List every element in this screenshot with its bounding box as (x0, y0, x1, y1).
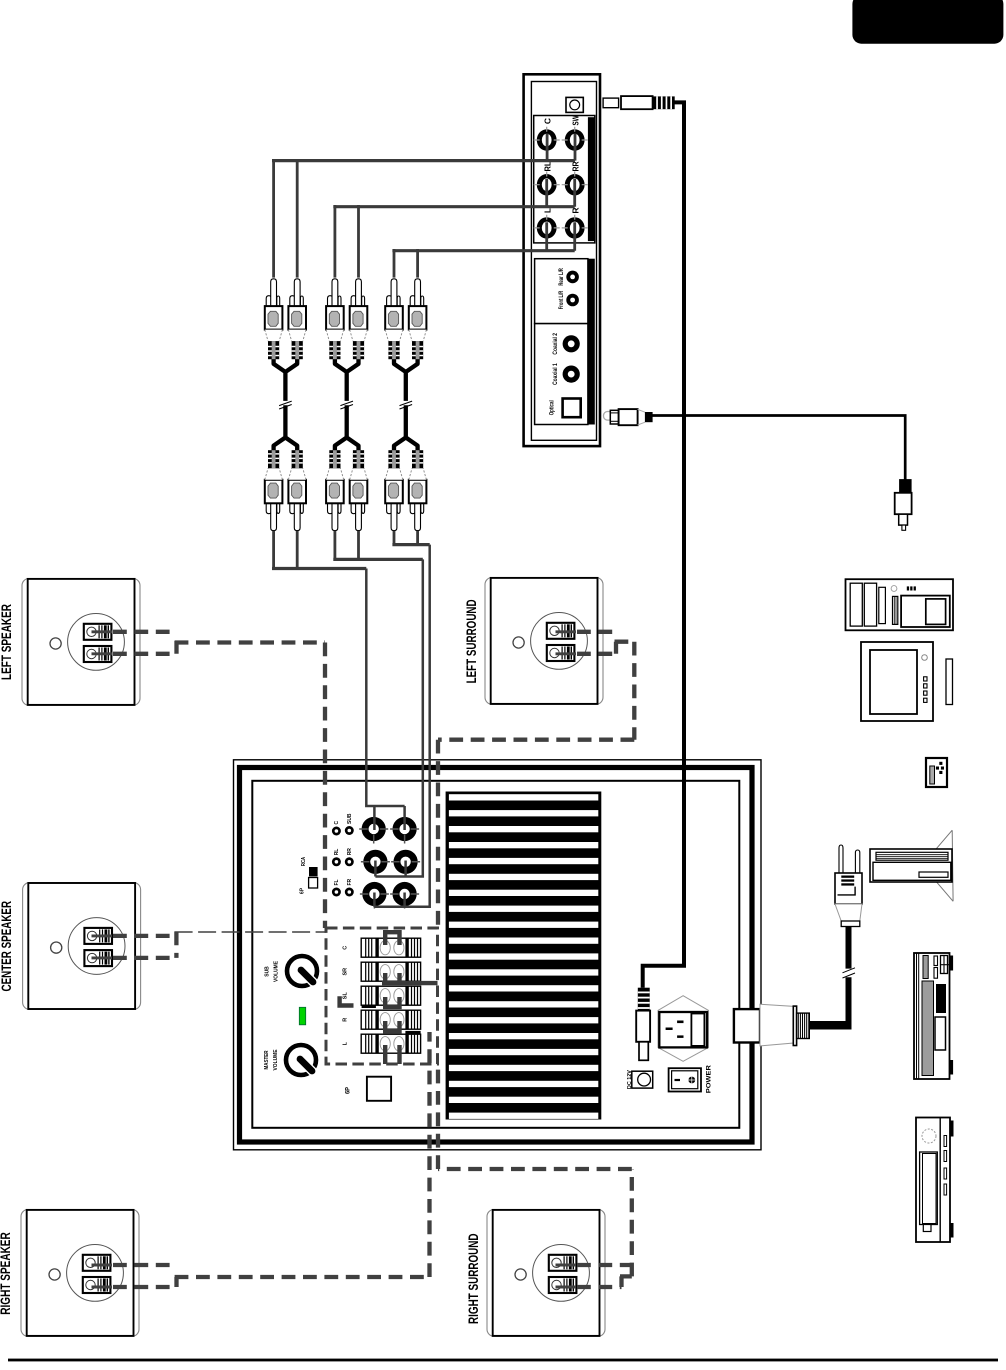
svg-text:SUB: SUB (265, 966, 271, 977)
svg-text:RIGHT SURROUND: RIGHT SURROUND (465, 1233, 481, 1324)
svg-text:SR: SR (343, 968, 349, 976)
svg-text:LEFT SURROUND: LEFT SURROUND (463, 599, 479, 683)
svg-text:RR: RR (347, 848, 353, 856)
svg-text:RL: RL (543, 162, 553, 172)
svg-text:R: R (343, 1018, 349, 1022)
svg-text:Optical: Optical (550, 400, 556, 415)
svg-text:C: C (543, 118, 553, 124)
svg-text:6P: 6P (346, 1087, 352, 1094)
svg-text:SL: SL (343, 992, 349, 1000)
svg-text:C: C (334, 821, 340, 825)
svg-text:L: L (543, 208, 553, 213)
svg-text:RR: RR (571, 162, 581, 172)
svg-text:DC 12V: DC 12V (627, 1070, 633, 1090)
svg-text:Front L/R: Front L/R (559, 290, 565, 309)
svg-text:FR: FR (347, 878, 353, 885)
svg-text:FL: FL (334, 879, 340, 885)
svg-text:MASTER: MASTER (264, 1050, 270, 1069)
svg-text:RIGHT SPEAKER: RIGHT SPEAKER (0, 1232, 13, 1315)
svg-text:VOLUME: VOLUME (273, 1049, 279, 1071)
svg-text:SUB: SUB (347, 813, 353, 824)
svg-text:VOLUME: VOLUME (274, 960, 280, 982)
svg-text:6P: 6P (300, 887, 306, 894)
svg-text:SW: SW (571, 115, 581, 126)
svg-text:RL: RL (334, 849, 340, 856)
svg-text:Coaxial 2: Coaxial 2 (553, 332, 559, 354)
svg-text:RCA: RCA (301, 857, 307, 867)
svg-text:R: R (571, 207, 581, 213)
svg-text:CENTER SPEAKER: CENTER SPEAKER (0, 901, 14, 992)
svg-text:Rear L/R: Rear L/R (559, 268, 565, 286)
svg-text:POWER: POWER (706, 1065, 713, 1093)
svg-text:C: C (343, 946, 349, 950)
svg-text:Coaxial 1: Coaxial 1 (553, 363, 559, 385)
svg-text:LEFT SPEAKER: LEFT SPEAKER (0, 604, 14, 680)
